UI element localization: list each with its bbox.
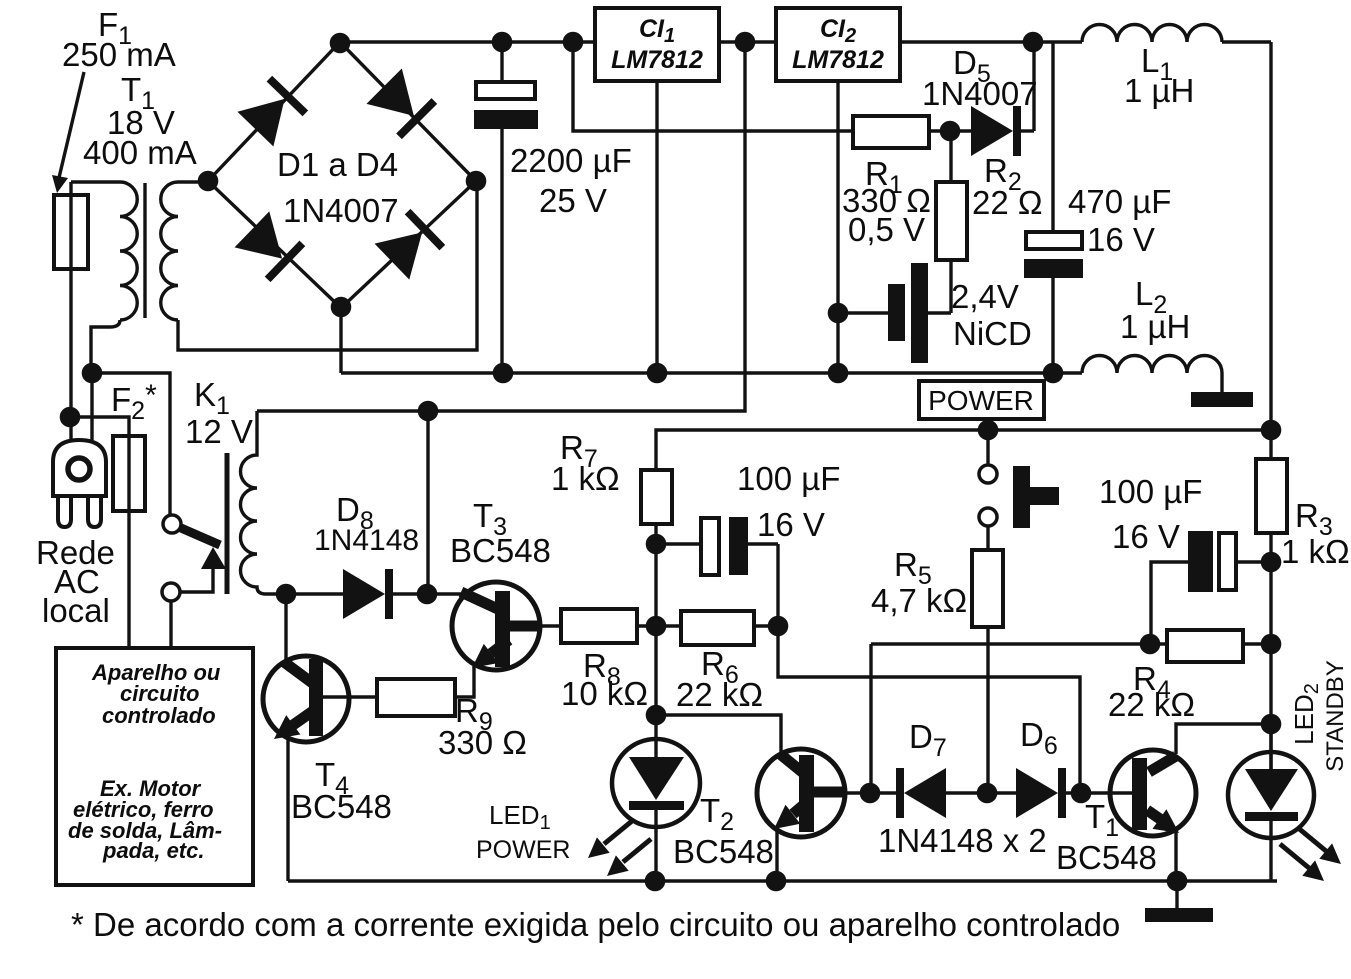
label R2 22ohm xyxy=(972,152,1043,221)
svg-text:BC548: BC548 xyxy=(450,532,551,569)
svg-text:330 Ω: 330 Ω xyxy=(438,724,527,761)
svg-text:1N4148: 1N4148 xyxy=(314,524,419,557)
svg-text:100 µF: 100 µF xyxy=(737,460,840,497)
label R4 22kohm xyxy=(1108,660,1195,723)
LED2 xyxy=(1228,724,1314,881)
diode D3 (bottom-left edge) xyxy=(235,211,306,282)
label 100uF 16V (right) xyxy=(1099,473,1202,555)
label LED2 STANDBY (rotated) xyxy=(1289,660,1349,772)
node: D5 cathode to 12V rail xyxy=(1023,32,1044,53)
fuse F1 xyxy=(54,182,88,417)
svg-text:BC548: BC548 xyxy=(673,833,774,870)
label POWER box xyxy=(919,381,1044,419)
diode D1 (top-left edge) xyxy=(237,76,308,147)
node: R6 right junction xyxy=(768,616,789,637)
inductor L1 xyxy=(1082,25,1222,42)
resistor R3 xyxy=(1256,430,1287,769)
wire: feed down to D8 cathode xyxy=(426,411,429,594)
svg-text:STANDBY: STANDBY xyxy=(1322,660,1349,772)
svg-text:16 V: 16 V xyxy=(1087,221,1155,258)
label F1 250 mA xyxy=(52,6,176,193)
diode D5 xyxy=(971,42,1034,156)
label T1 BC548 xyxy=(1056,798,1157,876)
node: D8 cathode junction xyxy=(417,584,438,605)
wire: bridge bottom to ground bus xyxy=(339,307,342,373)
svg-text:local: local xyxy=(42,592,110,629)
wire: junction down to T4 collector xyxy=(284,594,287,660)
label 2200uF 25V xyxy=(510,142,632,219)
svg-text:12 V: 12 V xyxy=(185,413,253,450)
wire: junction to F2 xyxy=(70,417,129,648)
node: bus1 junctions xyxy=(493,363,1064,384)
label 470uF 16V xyxy=(1068,183,1171,258)
node: LED2/T1-collector junction xyxy=(1261,714,1282,735)
regulator CI1 LM7812 xyxy=(595,8,719,81)
svg-text:1 kΩ: 1 kΩ xyxy=(1281,533,1350,570)
svg-text:10 kΩ: 10 kΩ xyxy=(561,675,648,712)
diode D7 xyxy=(896,768,946,818)
bridge rectifier D1 a D4 frame xyxy=(208,42,476,308)
svg-text:4,7 kΩ: 4,7 kΩ xyxy=(871,582,967,619)
label T2 BC548 xyxy=(673,792,774,870)
label D1 a D4 1N4007 xyxy=(277,146,399,229)
wire: raw DC feed to R1 xyxy=(573,42,853,131)
svg-text:NiCD: NiCD xyxy=(953,315,1032,352)
wire: CI1 ground pin xyxy=(655,81,658,373)
svg-text:2,4V: 2,4V xyxy=(951,278,1019,315)
wire: +18V top rail xyxy=(340,40,1271,43)
node: bridge vertices xyxy=(198,33,487,318)
wire: CI2 ground pin xyxy=(836,81,839,373)
svg-text:100 µF: 100 µF xyxy=(1099,473,1202,510)
wire: R7 junction chain down xyxy=(654,544,657,715)
resistor R2 xyxy=(936,131,967,313)
wire: relay contact to load box xyxy=(169,601,172,648)
node: R4 right junction xyxy=(1261,634,1282,655)
node: bottom bus junctions xyxy=(645,871,1188,892)
diode D2 (top-right edge) xyxy=(366,68,437,139)
svg-text:LM7812: LM7812 xyxy=(611,46,703,74)
label Rede AC local xyxy=(36,534,115,629)
svg-text:0,5 V: 0,5 V xyxy=(848,211,925,248)
node: plug junction xyxy=(82,363,103,384)
resistor R9 xyxy=(377,679,455,716)
svg-text:1N4007: 1N4007 xyxy=(283,192,399,229)
svg-text:1 kΩ: 1 kΩ xyxy=(551,460,620,497)
svg-text:2200 µF: 2200 µF xyxy=(510,142,632,179)
transformer T1 xyxy=(71,181,477,373)
resistor R8 xyxy=(561,609,656,643)
diode D6 xyxy=(1016,768,1066,818)
svg-text:pada, etc.: pada, etc. xyxy=(102,838,204,863)
wire: plug right lead xyxy=(90,373,93,440)
ground: T1 emitter xyxy=(1145,881,1213,922)
AC plug xyxy=(53,440,106,527)
svg-text:1N4007: 1N4007 xyxy=(922,75,1038,112)
svg-text:22 kΩ: 22 kΩ xyxy=(676,676,763,713)
svg-text:1 µH: 1 µH xyxy=(1120,308,1190,345)
resistor R7 xyxy=(641,470,672,544)
node: R3 bottom junction xyxy=(1261,552,1282,573)
diode D4 (bottom-right edge) xyxy=(375,209,446,280)
wire: cap/R6 node to T1 base xyxy=(778,544,1080,793)
label 100uF 16V (left) xyxy=(737,460,840,543)
wire: D8 cathode to T3 base xyxy=(393,592,462,595)
label T3 BC548 xyxy=(450,497,551,569)
wire: right edge rail down to bus2 xyxy=(1269,42,1272,430)
wire: D7 anode to D6 anode xyxy=(946,791,1016,794)
node: T4 collector junction xyxy=(276,584,297,605)
svg-text:BC548: BC548 xyxy=(1056,839,1157,876)
pushbutton xyxy=(979,430,1059,550)
node: T1 base junction xyxy=(1071,783,1092,804)
capacitor 100uF 16V (left) xyxy=(656,517,778,575)
svg-text:D1 a D4: D1 a D4 xyxy=(277,146,398,183)
svg-text:400 mA: 400 mA xyxy=(83,134,197,171)
node: CI1-CI2 junction xyxy=(735,32,756,53)
resistor R1 xyxy=(853,116,972,148)
node: LED1/T2-base junction xyxy=(646,705,667,726)
LED2 arrows xyxy=(1280,827,1341,881)
resistor R6 xyxy=(656,611,778,645)
svg-text:22 kΩ: 22 kΩ xyxy=(1108,686,1195,723)
svg-text:* De acordo com a corrente exi: * De acordo com a corrente exigida pelo … xyxy=(71,906,1120,943)
node: R4 left junction xyxy=(1140,634,1161,655)
LED1 xyxy=(612,715,700,881)
transistor T2 BC548 xyxy=(757,749,845,881)
LED1 arrows xyxy=(588,821,651,876)
svg-text:POWER: POWER xyxy=(928,385,1034,416)
node: battery negative junction xyxy=(828,303,849,324)
capacitor 470uF 16V xyxy=(1024,42,1083,373)
label LED1 POWER xyxy=(476,800,570,864)
relay K1 coil xyxy=(227,411,343,594)
capacitor 100uF 16V (right) xyxy=(1151,531,1271,644)
wire: D6 cathode to T1 base xyxy=(1066,791,1134,794)
wire: T4 base to R9 xyxy=(323,695,377,698)
wire: ground bus (bus1) xyxy=(341,371,1082,374)
wire: AC line to relay contact xyxy=(92,373,170,515)
label D5 1N4007 xyxy=(922,44,1038,112)
label 2,4V NiCD xyxy=(951,278,1032,352)
svg-text:1N4148 x 2: 1N4148 x 2 xyxy=(878,822,1047,859)
resistor R5 xyxy=(972,550,1003,793)
node: bus2 junctions xyxy=(978,420,1282,441)
node: D7-D6-R5 junction xyxy=(977,783,998,804)
label T1 18V 400mA xyxy=(83,71,197,171)
wire: T1 collector feed xyxy=(1176,724,1271,754)
caption xyxy=(71,906,1120,943)
node: R8-R6 junction xyxy=(646,616,667,637)
node: F1 to plug/F2 junction xyxy=(60,407,81,428)
svg-text:470 µF: 470 µF xyxy=(1068,183,1171,220)
node: relay coil top feed xyxy=(418,401,439,422)
wire: junction to plug left lead xyxy=(69,417,72,440)
transistor T1 BC548 xyxy=(1110,750,1196,881)
label R8 10kohm xyxy=(561,647,648,712)
svg-text:1 µH: 1 µH xyxy=(1124,72,1194,109)
label T4 BC548 xyxy=(291,756,392,825)
wire: T3 collector to R8 xyxy=(540,624,561,627)
diode D8 xyxy=(343,569,393,619)
label L1 1uH xyxy=(1124,42,1194,109)
wire: emitter bus (bottom) xyxy=(288,879,1277,882)
label L2 1uH xyxy=(1120,275,1190,345)
svg-text:POWER: POWER xyxy=(476,836,570,864)
node: T2 collector junction xyxy=(860,783,881,804)
svg-text:BC548: BC548 xyxy=(291,788,392,825)
label R9 330ohm xyxy=(438,692,527,761)
load box Aparelho ou circuito controlado xyxy=(56,648,253,885)
wire: junction to T2 base xyxy=(656,715,781,753)
ground: L2 output xyxy=(1191,392,1253,407)
svg-text:22 Ω: 22 Ω xyxy=(972,184,1043,221)
label K1 12V xyxy=(185,376,253,450)
label R3 1kohm xyxy=(1281,497,1350,570)
svg-text:16 V: 16 V xyxy=(1112,518,1180,555)
capacitor 2200uF 25V xyxy=(474,42,538,373)
relay K1 contact (switch) xyxy=(162,515,226,601)
label D8 1N4148 xyxy=(314,491,419,557)
transistor T4 BC548 xyxy=(263,656,349,881)
label R5 4,7kohm xyxy=(871,546,967,619)
svg-text:controlado: controlado xyxy=(102,703,216,728)
resistor R4 xyxy=(1167,630,1271,662)
wire: T2 collector feed xyxy=(869,644,872,793)
wire: T2 collector to D7 xyxy=(844,791,896,794)
svg-text:250 mA: 250 mA xyxy=(62,36,176,73)
wire: 12V feed to relay coil xyxy=(257,42,745,411)
fuse F2 xyxy=(113,436,145,511)
node: R7 bottom junction xyxy=(646,534,667,555)
svg-text:25 V: 25 V xyxy=(539,182,607,219)
svg-text:16 V: 16 V xyxy=(757,506,825,543)
wire: R4 base line xyxy=(871,642,1167,645)
inductor L2 xyxy=(1082,356,1222,393)
svg-text:LM7812: LM7812 xyxy=(792,46,884,74)
wire: +12V bus (bus2) xyxy=(656,430,1271,470)
transistor T3 BC548 xyxy=(452,582,540,697)
regulator CI2 LM7812 xyxy=(776,8,900,81)
node: CI1 input tap xyxy=(563,32,584,53)
label R6 22kohm xyxy=(676,645,763,713)
label R1 330ohm 0,5V xyxy=(842,155,931,248)
label R7 1kohm xyxy=(551,429,620,497)
node: R1-D5-R2 junction xyxy=(940,121,961,142)
battery 2,4V NiCD xyxy=(838,263,951,363)
node: 2200uF tap xyxy=(492,32,513,53)
